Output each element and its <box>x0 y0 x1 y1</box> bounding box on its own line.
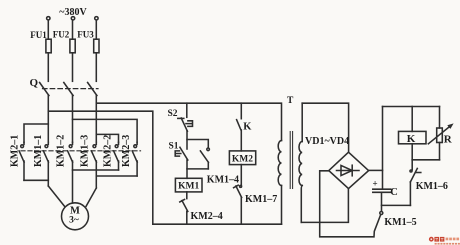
node L3 terminal <box>95 17 98 20</box>
svg-text:Q: Q <box>30 77 39 89</box>
node L2 terminal <box>71 17 74 20</box>
rectifier bridge VD1~VD4 diamond <box>329 152 369 188</box>
transformer T secondary winding <box>299 142 302 186</box>
wire L1 drop <box>47 20 49 39</box>
watermark logo <box>429 237 460 245</box>
contact KM1-5 <box>374 212 383 237</box>
contact KM1-2 <box>68 142 73 203</box>
wire bypass top <box>187 140 208 148</box>
contact K (relay contact) <box>237 103 242 151</box>
wire L2 drop <box>72 20 74 39</box>
contact KM2-1 <box>19 142 24 180</box>
svg-text:KM1–4: KM1–4 <box>207 175 239 186</box>
svg-text:KM2–4: KM2–4 <box>191 211 223 222</box>
wire mechanical dashed link of six contacts <box>21 150 141 152</box>
wire phase3 below Q <box>95 95 97 142</box>
resistor R (adjustable) <box>437 128 443 143</box>
fuse FU2 <box>70 39 75 53</box>
contact KM1-1 <box>43 142 48 186</box>
svg-text:KM1: KM1 <box>178 182 199 192</box>
svg-text:S2: S2 <box>168 109 178 119</box>
contact KM1-6 (NC) <box>410 160 421 206</box>
svg-text:K: K <box>407 133 416 145</box>
pushbutton S2 (NC) seat <box>178 117 184 119</box>
wire primary bottom lead <box>281 186 283 225</box>
contact KM1-7 (NC interlock) <box>234 165 242 225</box>
svg-text:3~: 3~ <box>69 216 79 226</box>
wire KM1-2 bottom join to KM2-2 <box>73 169 119 171</box>
diode symbol inside bridge <box>337 165 360 176</box>
wire phase2 below Q <box>72 95 74 142</box>
coil KM1 <box>175 178 202 192</box>
coil KM2 <box>229 151 255 165</box>
wire KM1-6 bottom to capacitor node <box>382 204 411 206</box>
motor M 3~ <box>62 203 89 230</box>
wire control return feed from phase1 to left rail <box>48 111 153 224</box>
svg-text:FU1: FU1 <box>30 30 47 40</box>
svg-text:R: R <box>444 134 453 146</box>
pushbutton S2 actuator bracket <box>186 121 193 127</box>
resistor R arrow <box>428 126 451 144</box>
wire L3 to Q <box>95 53 97 82</box>
wire bridge DC+ to right circuit <box>369 169 383 171</box>
wire S2 branch drop <box>186 103 188 117</box>
svg-text:K: K <box>243 122 252 133</box>
svg-text:KM1–5: KM1–5 <box>384 217 416 228</box>
svg-text:T: T <box>287 96 294 106</box>
wire phase3 branch to KM2-2 <box>96 134 118 142</box>
wire R branch drop <box>439 107 441 129</box>
wire S2 to S1 <box>186 131 188 149</box>
wire bridge AC2 to bottom rail <box>320 171 374 237</box>
wire control feed from phase3 (top rail) <box>96 103 281 140</box>
wire K coil branch drop <box>411 107 413 132</box>
svg-text:KM1–7: KM1–7 <box>245 194 277 205</box>
svg-text:FU3: FU3 <box>77 30 94 40</box>
capacitor C <box>373 189 391 192</box>
wire capacitor bottom <box>381 192 383 211</box>
wire L2 to Q <box>72 53 74 82</box>
wire L3 drop <box>95 20 97 39</box>
node L1 terminal <box>47 17 50 20</box>
fuse FU1 <box>46 39 51 53</box>
switch Q blade 3 <box>88 83 97 96</box>
svg-text:FU2: FU2 <box>53 30 70 40</box>
wire secondary bottom rail to bridge bottom <box>301 189 348 223</box>
wire K coil to bottom join <box>411 144 413 160</box>
svg-text:C: C <box>390 187 398 198</box>
wire DC+ rail vertical <box>382 107 384 189</box>
switch Q blade 1 <box>40 83 49 96</box>
wire phase1 below Q <box>47 95 49 142</box>
pushbutton S1 actuator <box>175 151 181 156</box>
wire secondary top rail to bridge <box>302 103 348 152</box>
switch Q blade 2 <box>64 83 73 96</box>
wire L1 to Q <box>47 53 49 82</box>
pushbutton S1 (NO) blade <box>180 147 188 160</box>
transformer T primary winding <box>278 141 281 186</box>
wire KM2-1 bottom join to KM1-1 <box>24 179 48 181</box>
svg-text:KM1–6: KM1–6 <box>416 181 448 192</box>
wire K/R loop top <box>383 106 440 108</box>
wire secondary top lead <box>301 103 303 141</box>
wire phase2 branch to KM2-3 <box>73 119 138 142</box>
svg-text:KM2: KM2 <box>232 155 253 165</box>
wire motor lead right <box>86 188 96 206</box>
contact KM2-4 (NC interlock) <box>180 192 188 224</box>
switch Q coupling dashed link <box>43 88 99 90</box>
svg-text:KM2–1: KM2–1 <box>9 135 20 167</box>
wire control bottom bus <box>153 223 282 225</box>
wire secondary bottom lead <box>300 186 303 223</box>
wire K/R loop bottom <box>412 159 439 161</box>
contact KM1-4 (seal-in) <box>200 148 209 169</box>
svg-text:+: + <box>373 179 378 189</box>
contact KM2-3 <box>132 142 137 176</box>
wire KM1-3 bottom join to KM2-3 <box>96 175 137 177</box>
fuse FU3 <box>94 39 99 53</box>
transformer T core <box>289 132 291 189</box>
wire bypass bottom <box>187 168 208 170</box>
wire S1 to KM1 coil <box>186 160 188 178</box>
svg-text:S1: S1 <box>169 142 179 152</box>
wire phase1 branch to KM2-1 <box>24 124 48 142</box>
relay coil K <box>399 131 427 143</box>
svg-text:VD1~VD4: VD1~VD4 <box>305 136 349 147</box>
pushbutton S2 (NC) blade <box>181 118 187 131</box>
contact KM1-3 <box>91 142 96 188</box>
contact KM2-2 <box>114 142 119 170</box>
wire motor lead left <box>48 186 65 207</box>
